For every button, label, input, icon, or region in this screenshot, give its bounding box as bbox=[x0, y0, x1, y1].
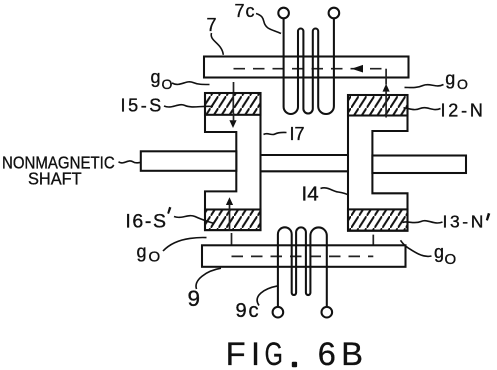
svg-text:I2-N: I2-N bbox=[441, 101, 486, 121]
svg-text:G: G bbox=[265, 335, 283, 370]
svg-text:I7: I7 bbox=[290, 124, 305, 144]
svg-text:9: 9 bbox=[188, 286, 201, 311]
svg-text:g: g bbox=[151, 67, 161, 87]
svg-text:I4: I4 bbox=[302, 183, 319, 206]
svg-text:I: I bbox=[251, 336, 260, 370]
svg-text:O: O bbox=[445, 251, 457, 268]
svg-text:g: g bbox=[434, 242, 444, 262]
svg-text:O: O bbox=[149, 249, 161, 266]
svg-text:F: F bbox=[226, 336, 246, 370]
svg-text:g: g bbox=[445, 69, 455, 89]
svg-text:O: O bbox=[457, 76, 468, 92]
svg-text:I6-S: I6-S bbox=[125, 210, 167, 232]
svg-text:I3-N: I3-N bbox=[443, 211, 486, 231]
svg-text:7: 7 bbox=[207, 15, 217, 35]
svg-text:O: O bbox=[162, 76, 173, 92]
svg-text:g: g bbox=[137, 242, 147, 262]
svg-text:7c: 7c bbox=[235, 1, 255, 21]
svg-text:6: 6 bbox=[318, 336, 336, 370]
svg-text:B: B bbox=[341, 336, 363, 370]
svg-text:SHAFT: SHAFT bbox=[28, 168, 82, 189]
svg-text:I5-S: I5-S bbox=[121, 96, 164, 116]
